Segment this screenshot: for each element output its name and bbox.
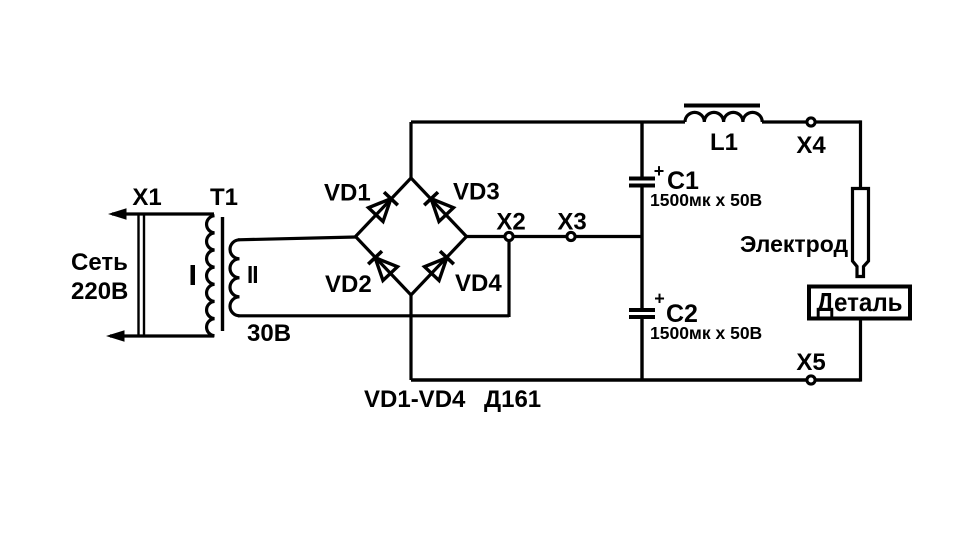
terminal X4 [807,118,815,126]
wire secondary bottom [238,314,509,317]
wire capacitor branch middle [640,188,643,309]
bridge diamond edge left-top [356,178,412,237]
wire electrode drop [859,120,862,188]
bridge diamond edge bottom-right [411,237,467,296]
electrode symbol [853,189,869,277]
svg-text:X5: X5 [796,349,825,376]
svg-text:X1: X1 [132,184,161,211]
svg-text:VD1: VD1 [324,180,371,207]
svg-text:VD1-VD4: VD1-VD4 [364,386,466,413]
wire capacitor branch lower [640,319,643,380]
diode VD2 [368,251,398,281]
inductor L1 winding [685,112,762,122]
capacitor C1 plate top [629,177,655,181]
wire X2 drop [507,237,510,318]
svg-text:1500мк x 50В: 1500мк x 50В [650,190,762,210]
svg-text:T1: T1 [210,184,238,211]
terminal X2 [505,232,513,240]
diode VD4 [425,251,455,281]
transformer T1 secondary winding [230,240,239,316]
connector X1 arrow top [108,208,127,220]
inductor L1 core bar [684,104,760,108]
transformer T1 core [221,217,224,331]
svg-text:1500мк x 50В: 1500мк x 50В [650,323,762,343]
wire bottom rail [411,378,861,381]
svg-text:X4: X4 [796,132,826,159]
terminal X3 [567,232,575,240]
wire secondary top [238,237,356,240]
bridge diamond edge top-right [411,178,467,237]
wire workpiece drop [859,319,862,382]
svg-text:Деталь: Деталь [817,287,903,317]
label I primary [191,265,196,285]
svg-text:+: + [654,161,665,181]
wire capacitor branch upper [640,122,643,177]
wire primary bottom [110,334,214,337]
connector X1 pin line 1 [137,214,139,336]
capacitor C1 plate bottom [629,184,655,188]
wire mid rail [467,235,643,238]
wire primary top [112,212,214,215]
svg-text:220В: 220В [71,278,128,305]
wire bridge top vertical [409,122,412,178]
svg-text:Д161: Д161 [484,386,541,413]
svg-text:Электрод: Электрод [740,231,848,257]
svg-text:Сеть: Сеть [71,249,128,276]
bridge diamond edge left-bottom [356,237,412,296]
capacitor C2 plate top [629,308,655,312]
workpiece box Деталь [809,287,910,319]
terminal X5 [807,376,815,384]
svg-text:X3: X3 [557,209,586,236]
svg-text:VD4: VD4 [455,270,502,297]
transformer T1 primary winding [207,216,215,336]
svg-text:+: + [654,289,665,309]
diode VD1 [369,192,399,222]
svg-text:L1: L1 [710,129,738,156]
diode VD3 [424,192,454,222]
wire top rail left [411,120,685,123]
connector X1 arrow bottom [106,330,125,342]
svg-text:X2: X2 [496,209,525,236]
connector X1 pin line 2 [143,214,145,336]
wire bridge bottom vertical [409,295,412,380]
svg-text:30В: 30В [247,320,291,347]
svg-text:VD2: VD2 [325,271,372,298]
svg-text:VD3: VD3 [453,179,500,206]
wire top rail right [762,120,861,123]
capacitor C2 plate bottom [629,315,655,319]
label II secondary [249,266,252,283]
